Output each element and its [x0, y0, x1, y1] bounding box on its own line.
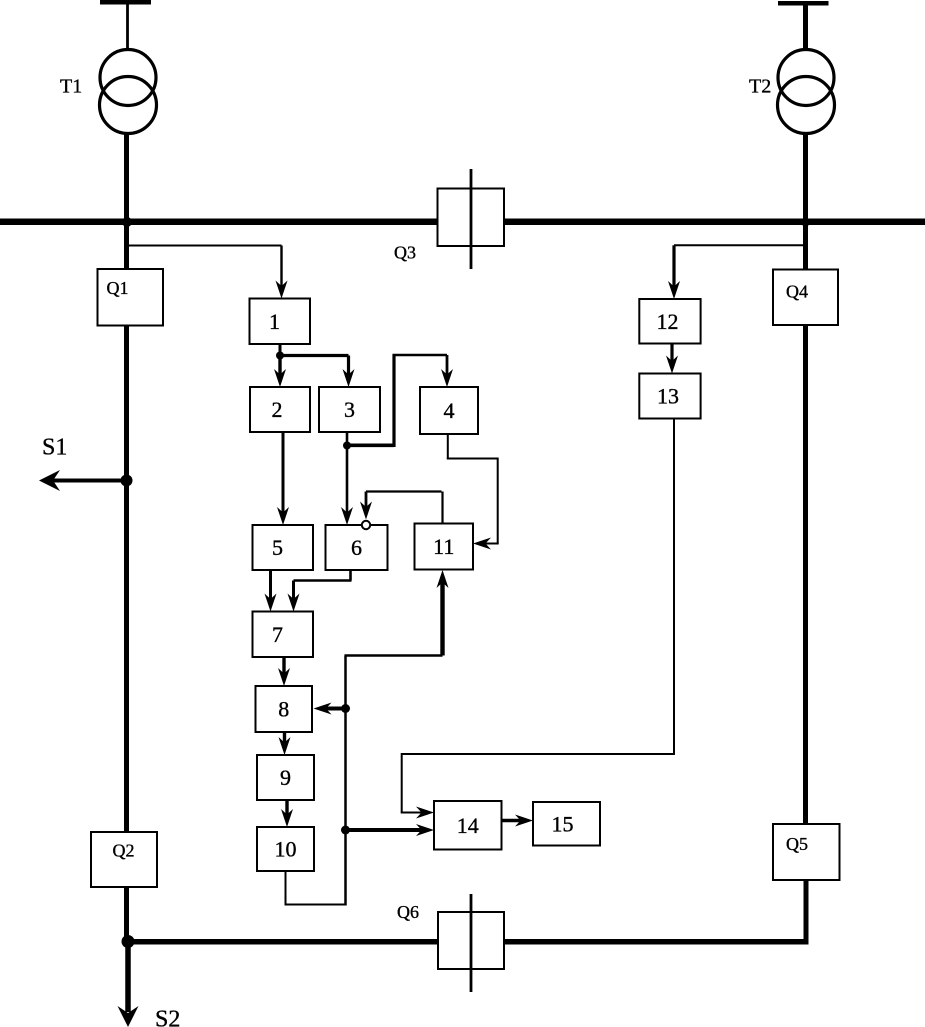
wire: bar to T1 — [126, 3, 129, 51]
wire: bus branch to block 12 (arrow) — [674, 244, 805, 246]
inverting circle on block 6 — [362, 521, 370, 529]
svg-text:2: 2 — [272, 397, 283, 422]
wire: block6 to block 7 (arrow) — [349, 570, 352, 581]
svg-text:T1: T1 — [60, 76, 82, 98]
wire: node3 to block 6 (arrow) — [346, 446, 349, 517]
wire: bus branch to block 1 — [127, 245, 282, 247]
block 1 — [250, 299, 311, 345]
block 10 — [257, 827, 314, 871]
wire: S1 feeder arrow — [52, 479, 127, 483]
breaker Q1 — [98, 269, 164, 326]
block 2 — [250, 387, 310, 432]
wire: block7 to block 8 (arrow) — [282, 657, 285, 677]
svg-text:9: 9 — [280, 765, 291, 790]
wire: S2 feeder arrow — [125, 942, 131, 1013]
svg-text:S1: S1 — [42, 435, 67, 461]
wire: node to block 2 (arrow) — [278, 356, 281, 379]
block 4 — [420, 387, 478, 434]
breaker Q3 (bus tie) — [438, 189, 505, 247]
wire: node to block 8 right side (arrow) — [324, 707, 346, 711]
svg-text:8: 8 — [278, 697, 289, 722]
node on riser at block 14 level — [341, 826, 350, 835]
block 11 — [415, 524, 474, 570]
svg-text:3: 3 — [344, 397, 355, 422]
block 7 — [253, 612, 314, 658]
svg-text:5: 5 — [272, 535, 283, 560]
node: S1 junction — [121, 475, 133, 487]
block 12 — [639, 299, 700, 344]
wire: block8 to block 9 (arrow) — [283, 732, 286, 746]
breaker Q2 — [91, 832, 157, 887]
block 13 — [639, 374, 700, 419]
wire: block13 down-left to block 14 (arrow) — [673, 419, 675, 755]
node: S2 junction — [122, 935, 135, 948]
wire: riser (block10 loop up to top corner) — [344, 656, 347, 906]
node: bus/T2 junction — [801, 218, 810, 227]
svg-text:S2: S2 — [155, 1007, 180, 1027]
wire: node to block 14 left side (arrow) — [346, 828, 423, 832]
wire: block9 to block 10 (arrow) — [285, 800, 288, 818]
svg-text:15: 15 — [552, 811, 574, 836]
transformer T2 — [778, 50, 834, 106]
block 15 — [533, 802, 600, 846]
svg-text:6: 6 — [351, 535, 362, 560]
block 8 — [256, 686, 313, 732]
wire: block4 to block 11 right side (arrow) — [447, 433, 449, 459]
block 6 — [326, 525, 388, 570]
breaker Q4 — [773, 270, 838, 326]
node under block 1 — [276, 352, 284, 360]
source bar above T2 — [778, 1, 829, 6]
transformer T1 — [100, 50, 156, 106]
svg-text:Q6: Q6 — [397, 902, 419, 922]
svg-text:Q4: Q4 — [786, 282, 808, 302]
node under block 3 — [343, 442, 351, 450]
svg-text:Q3: Q3 — [394, 243, 416, 263]
node: bus/T1 junction — [122, 217, 132, 227]
wire: block14 to block 15 (arrow) — [502, 819, 522, 822]
block 9 — [257, 755, 314, 800]
svg-text:Q2: Q2 — [113, 841, 135, 861]
breaker Q6 (bottom tie) — [438, 912, 504, 969]
wire: block12 to block 13 (arrow) — [670, 344, 673, 365]
svg-text:7: 7 — [272, 622, 283, 647]
wire: Q2 to bottom bus — [124, 887, 129, 942]
svg-text:4: 4 — [444, 398, 455, 423]
svg-text:T2: T2 — [749, 76, 771, 98]
wire: T1 to bus — [124, 132, 129, 225]
wire: up into block 11 bottom (arrow) — [440, 579, 444, 656]
svg-text:11: 11 — [433, 534, 454, 559]
svg-text:1: 1 — [269, 309, 280, 334]
svg-text:10: 10 — [275, 837, 297, 862]
wire: Q5 to bottom bus — [804, 880, 809, 942]
wire: bus to Q4 — [803, 224, 808, 270]
node on riser at block 8 level — [341, 704, 350, 713]
wire: block3 to node3 — [346, 432, 349, 446]
wire: Q1 to Q2 — [124, 326, 129, 833]
wire: Q4 to Q5 — [803, 325, 808, 824]
wire: block5 to block 7 (arrow) — [269, 570, 272, 602]
block 3 — [319, 387, 380, 432]
main busbar (top) — [0, 219, 925, 226]
wire: node to block 3 (arrow) — [280, 354, 349, 357]
breaker Q5 — [773, 824, 840, 880]
wire: block1 to node — [279, 344, 282, 356]
wire: block2 to block 5 (arrow) — [282, 432, 285, 516]
wire: bus to Q1 — [124, 224, 129, 269]
svg-text:14: 14 — [457, 813, 479, 838]
wire: block11 top loop to block 6 inverted input — [441, 492, 443, 524]
block 14 — [434, 801, 502, 850]
svg-text:12: 12 — [657, 309, 679, 334]
bottom busbar — [124, 939, 809, 945]
wire: block10 bottom loop to riser — [285, 871, 287, 905]
svg-text:13: 13 — [657, 384, 679, 409]
svg-text:Q5: Q5 — [786, 834, 808, 854]
source bar above T1 — [100, 0, 151, 5]
block 5 — [253, 525, 314, 570]
wire: bar to T2 — [803, 3, 808, 51]
wire: node3 up-over to block 4 (arrow) — [347, 443, 394, 447]
wire: T2 to bus — [803, 132, 808, 225]
wire: top corner to block 11 riser — [345, 654, 443, 657]
svg-text:Q1: Q1 — [107, 278, 129, 298]
